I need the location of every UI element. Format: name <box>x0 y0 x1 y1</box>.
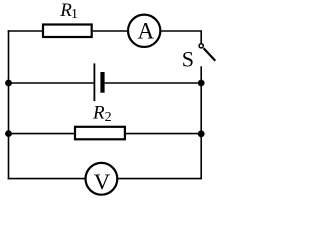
wire bottom row left <box>8 178 85 180</box>
wire battery row right <box>105 82 202 84</box>
wire top row left segment <box>8 30 43 32</box>
svg-text:2: 2 <box>105 110 112 125</box>
voltmeter V1 <box>86 163 118 195</box>
battery short thick plate <box>100 72 104 93</box>
switch S pivot <box>199 44 203 48</box>
resistor R2 <box>75 127 125 140</box>
node junction right battery <box>198 80 205 87</box>
wire ammeter to top-right corner and down to switch <box>161 31 201 43</box>
svg-text:A: A <box>137 18 154 43</box>
wire R1 to ammeter <box>93 30 127 32</box>
switch S blade <box>204 48 216 61</box>
resistor R1 <box>43 25 92 38</box>
svg-text:V: V <box>94 169 110 194</box>
node junction left battery <box>5 80 12 87</box>
battery long plate <box>93 63 95 101</box>
svg-text:1: 1 <box>71 7 78 22</box>
node junction right R2 <box>198 130 205 137</box>
wire R2 row left <box>9 133 76 135</box>
wire R2 row right <box>126 133 201 135</box>
switch S lower contact wire <box>200 66 202 83</box>
ammeter A1 <box>128 15 160 47</box>
node junction left R2 <box>5 130 12 137</box>
svg-text:R: R <box>92 103 105 124</box>
wire right rail down to voltmeter row <box>118 83 201 179</box>
svg-text:S: S <box>182 46 194 71</box>
wire left rail <box>8 30 10 179</box>
wire battery row left <box>9 82 95 84</box>
